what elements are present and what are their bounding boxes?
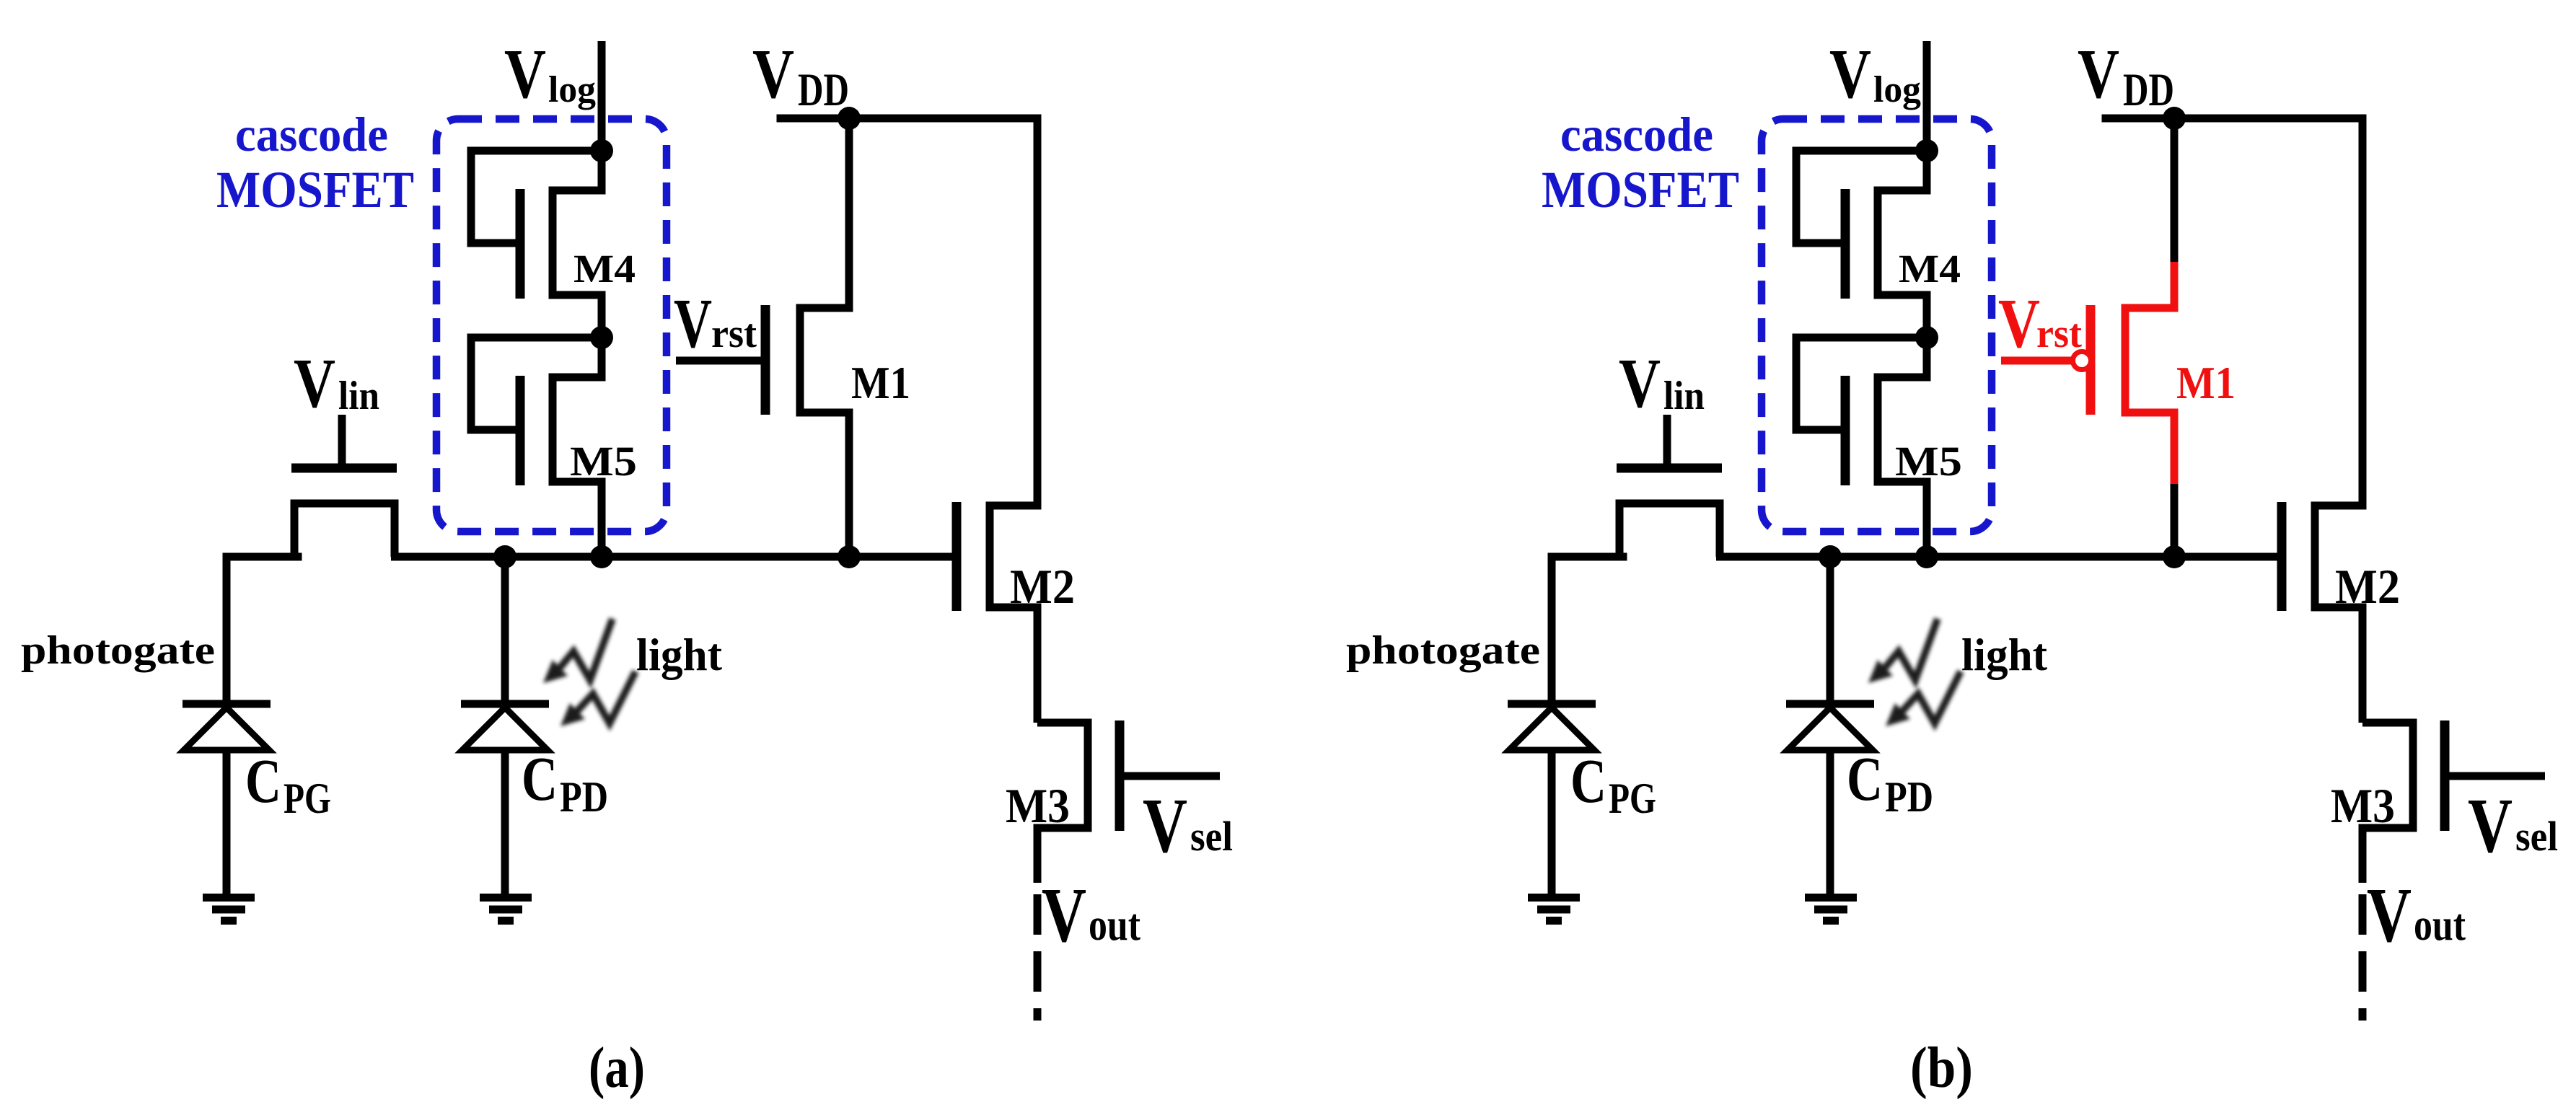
diode CPD (b): [1786, 700, 1874, 708]
node VDD (b): [2163, 107, 2186, 130]
wire M1 drain stem (b): [2171, 118, 2179, 262]
wire M3 gate lead (a): [1120, 772, 1220, 780]
svg-text:V: V: [1998, 285, 2040, 363]
wire V_log feed (b): [1923, 41, 1931, 151]
svg-text:DD: DD: [2123, 64, 2174, 116]
wire sense rail (a): [391, 553, 957, 561]
transistor M3 select (b): [2362, 723, 2413, 883]
svg-text:sel: sel: [2515, 813, 2558, 860]
wire Vlin gate lead (a): [338, 415, 346, 468]
svg-text:M1: M1: [851, 357, 910, 408]
wire M1 source stem (b): [2171, 484, 2179, 557]
svg-text:V: V: [674, 285, 712, 363]
wire CPG to ground (b): [1548, 750, 1556, 898]
svg-text:C: C: [1570, 746, 1606, 816]
svg-text:M3: M3: [2331, 778, 2395, 833]
svg-text:V: V: [1042, 873, 1086, 958]
svg-text:PG: PG: [283, 775, 331, 822]
wire V_out dashed (a): [1034, 894, 1042, 1021]
ground CPD (a): [480, 898, 532, 921]
svg-text:DD: DD: [798, 64, 849, 116]
svg-text:out: out: [1089, 901, 1140, 950]
svg-text:V: V: [1619, 345, 1661, 423]
transistor M1 reset PMOS red (b): [2125, 262, 2174, 484]
transistor Vlin photogate transfer (b): [1619, 503, 1720, 557]
transistor M3 select (a): [1037, 723, 1088, 883]
transistor Vlin photogate transfer (a): [294, 503, 395, 557]
transistor M4 (a): [553, 151, 602, 338]
node M4 drain (a): [590, 139, 613, 162]
svg-text:light: light: [636, 629, 723, 680]
node M4-M5 junction (a): [590, 326, 613, 349]
svg-text:M2: M2: [1010, 559, 1075, 614]
svg-text:photogate: photogate: [21, 628, 215, 673]
svg-text:PD: PD: [560, 773, 608, 821]
svg-text:lin: lin: [1663, 374, 1705, 418]
svg-text:M4: M4: [573, 247, 636, 291]
wire M3 gate lead (b): [2445, 772, 2545, 780]
wire photodiode branch (b): [1827, 557, 1834, 704]
svg-text:PG: PG: [1609, 775, 1656, 822]
svg-text:C: C: [1847, 744, 1883, 814]
node photodiode junction (b): [1819, 545, 1842, 568]
transistor M4 (b): [1878, 151, 1927, 338]
wire CPD to ground (a): [501, 750, 509, 898]
svg-text:M4: M4: [1899, 247, 1961, 291]
svg-text:out: out: [2414, 901, 2466, 950]
svg-text:V: V: [752, 35, 794, 113]
cascode MOSFET group box (b): [1762, 119, 1992, 532]
svg-text:rst: rst: [2036, 312, 2082, 356]
wire photodiode branch (a): [501, 557, 509, 704]
svg-text:MOSFET: MOSFET: [1542, 161, 1739, 219]
svg-text:PD: PD: [1885, 773, 1933, 821]
node sense (b): [1915, 545, 1938, 568]
diode CPG (a): [183, 700, 271, 708]
svg-text:(b): (b): [1910, 1036, 1973, 1100]
transistor M2 source follower (b): [2315, 118, 2362, 723]
svg-text:lin: lin: [338, 374, 379, 418]
svg-text:log: log: [1873, 69, 1921, 110]
svg-text:M3: M3: [1006, 778, 1070, 833]
wire M4 gate tie (b): [1796, 151, 1927, 243]
svg-text:V: V: [2367, 873, 2412, 958]
node sense (a): [590, 545, 613, 568]
svg-text:rst: rst: [711, 312, 757, 356]
svg-text:M1: M1: [2176, 357, 2236, 408]
svg-text:M2: M2: [2335, 559, 2400, 614]
svg-text:sel: sel: [1190, 813, 1233, 860]
wire photogate jog rail (a): [227, 553, 298, 561]
svg-text:M5: M5: [570, 438, 637, 485]
wire M5 gate tie (a): [471, 338, 602, 430]
svg-text:V: V: [1829, 35, 1871, 113]
wire photogate branch (b): [1548, 557, 1556, 704]
light arrows (a): [543, 619, 636, 726]
svg-text:V: V: [2078, 35, 2119, 113]
wire CPG to ground (a): [223, 750, 231, 898]
node photodiode junction (a): [493, 545, 516, 568]
svg-text:M5: M5: [1895, 438, 1962, 485]
ground CPG (a): [203, 898, 255, 921]
cascode MOSFET group box (a): [436, 119, 667, 532]
node M1 source (a): [838, 545, 861, 568]
wire CPD to ground (b): [1827, 750, 1834, 898]
svg-text:V: V: [1143, 783, 1187, 869]
light arrows (b): [1868, 619, 1961, 726]
transistor M2 source follower (a): [990, 118, 1037, 723]
wire V_out dashed (b): [2359, 894, 2367, 1021]
node M4 drain (b): [1915, 139, 1938, 162]
svg-text:MOSFET: MOSFET: [216, 161, 414, 219]
wire M1 gate lead red (b): [2001, 357, 2073, 365]
node M4-M5 junction (b): [1915, 326, 1938, 349]
wire M5 gate tie (b): [1796, 338, 1927, 430]
svg-text:log: log: [548, 69, 596, 110]
wire VDD rail (b): [2106, 115, 2362, 123]
svg-text:V: V: [504, 35, 546, 113]
node M1 source (b): [2163, 545, 2186, 568]
transistor M5 (b): [1878, 338, 1927, 557]
wire photogate jog rail (b): [1552, 553, 1623, 561]
svg-text:C: C: [245, 746, 281, 816]
wire M1 gate lead (a): [676, 357, 765, 365]
svg-text:cascode: cascode: [1560, 107, 1713, 162]
transistor M5 (a): [553, 338, 602, 557]
svg-text:photogate: photogate: [1346, 628, 1540, 673]
transistor M1 reset (a): [800, 118, 849, 557]
wire V_log feed (a): [598, 41, 606, 151]
svg-text:V: V: [2468, 783, 2513, 869]
ground CPD (b): [1805, 898, 1857, 921]
ground CPG (b): [1528, 898, 1580, 921]
wire photogate branch (a): [223, 557, 231, 704]
svg-text:cascode: cascode: [235, 107, 388, 162]
wire sense rail (b): [1716, 553, 2282, 561]
svg-text:light: light: [1961, 629, 2048, 680]
diode CPG (b): [1508, 700, 1596, 708]
svg-text:V: V: [294, 345, 335, 423]
diode CPD (a): [461, 700, 549, 708]
wire M4 gate tie (a): [471, 151, 602, 243]
svg-text:C: C: [522, 744, 558, 814]
svg-text:(a): (a): [589, 1036, 645, 1100]
node VDD (a): [838, 107, 861, 130]
wire VDD rail (a): [781, 115, 1037, 123]
gate bubble M1 (b): [2073, 352, 2091, 370]
wire Vlin gate lead (b): [1663, 415, 1671, 468]
